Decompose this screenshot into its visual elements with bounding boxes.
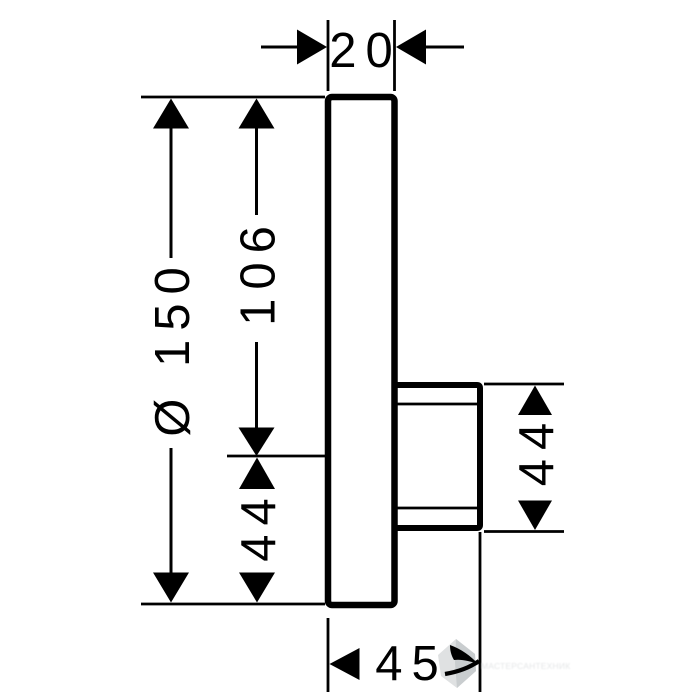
svg-text:44: 44 xyxy=(232,489,286,562)
svg-text:МАСТЕРСАНТЕХНИК: МАСТЕРСАНТЕХНИК xyxy=(481,661,570,671)
svg-text:45: 45 xyxy=(375,637,448,691)
svg-text:44: 44 xyxy=(510,414,564,487)
svg-text:20: 20 xyxy=(329,24,402,78)
svg-text:Ø 150: Ø 150 xyxy=(146,258,200,436)
svg-text:106: 106 xyxy=(232,217,286,326)
